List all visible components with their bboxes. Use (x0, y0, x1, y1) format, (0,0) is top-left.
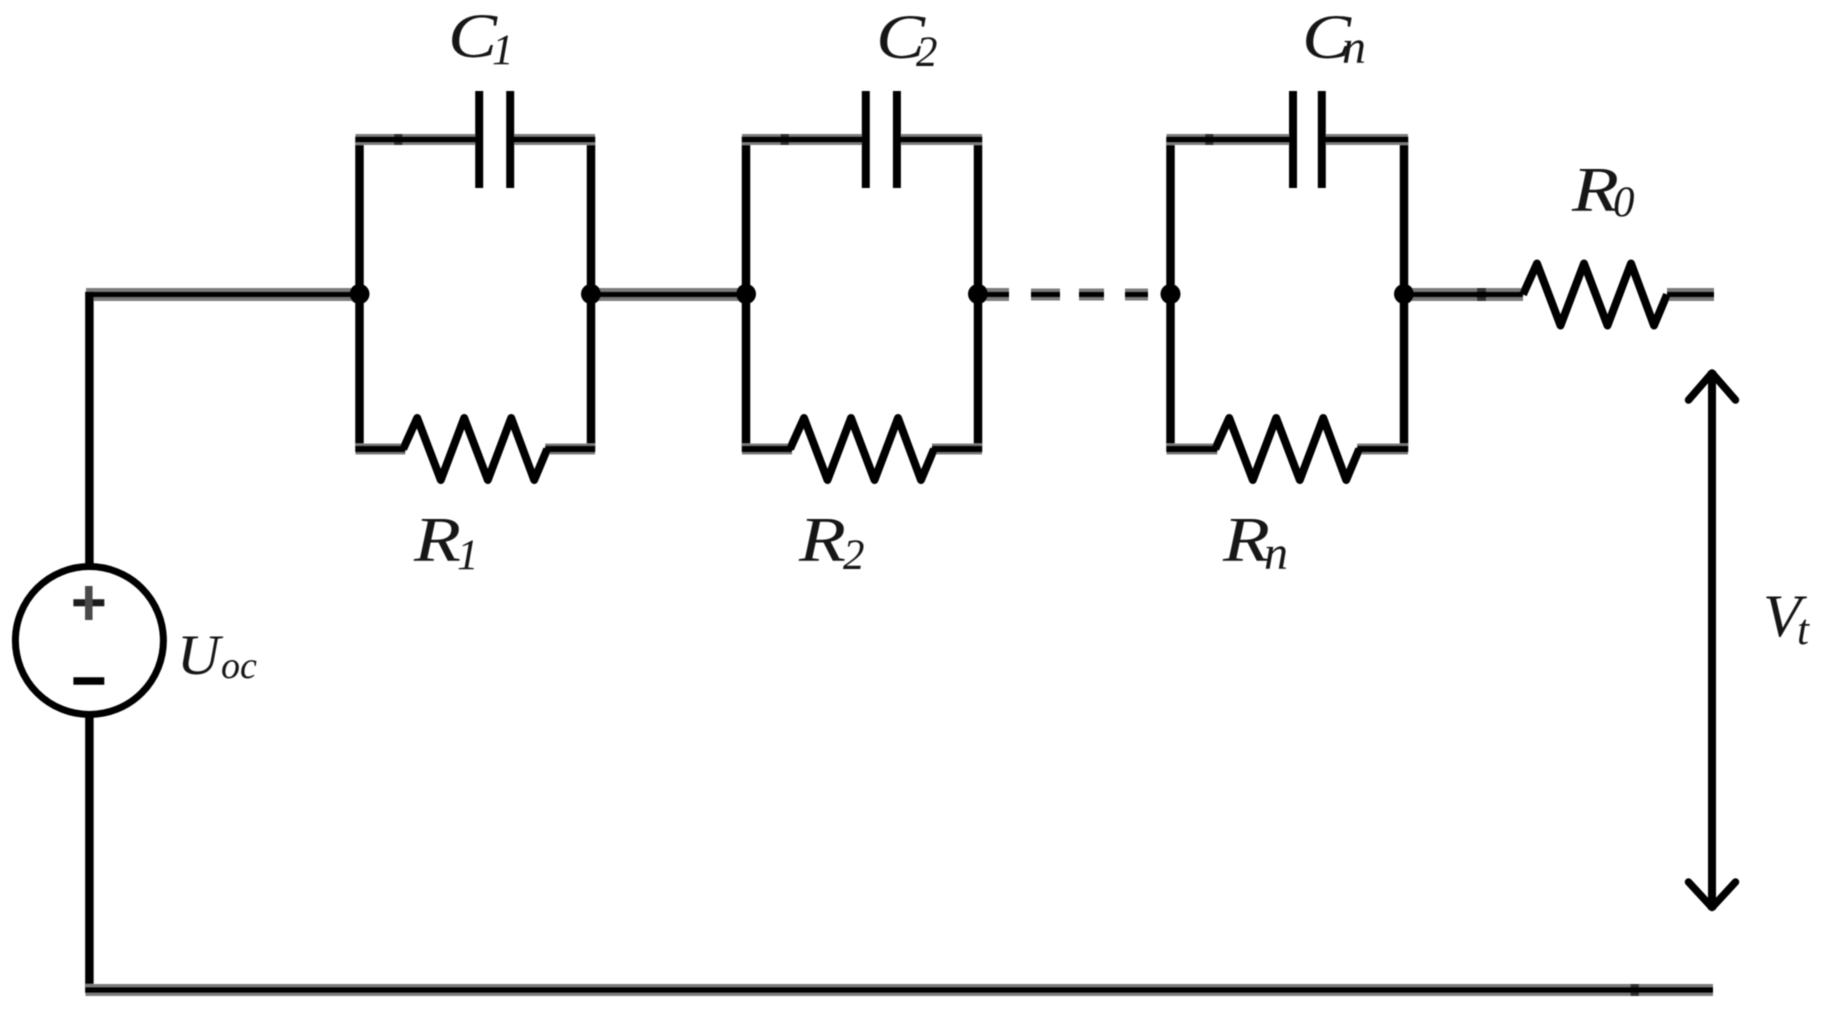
svg-text:C: C (448, 1, 498, 71)
svg-text:n: n (1264, 527, 1288, 580)
svg-text:R: R (1222, 505, 1270, 575)
svg-text:t: t (1797, 607, 1810, 654)
svg-text:2: 2 (843, 532, 865, 579)
svg-text:R: R (1571, 155, 1619, 225)
svg-text:U: U (177, 624, 224, 687)
svg-text:R: R (413, 505, 461, 575)
svg-text:0: 0 (1613, 179, 1635, 226)
svg-text:n: n (1342, 21, 1366, 74)
svg-text:R: R (798, 505, 846, 575)
svg-text:1: 1 (457, 532, 479, 579)
svg-text:oc: oc (221, 645, 257, 687)
svg-text:2: 2 (916, 29, 938, 76)
svg-text:1: 1 (492, 27, 514, 74)
